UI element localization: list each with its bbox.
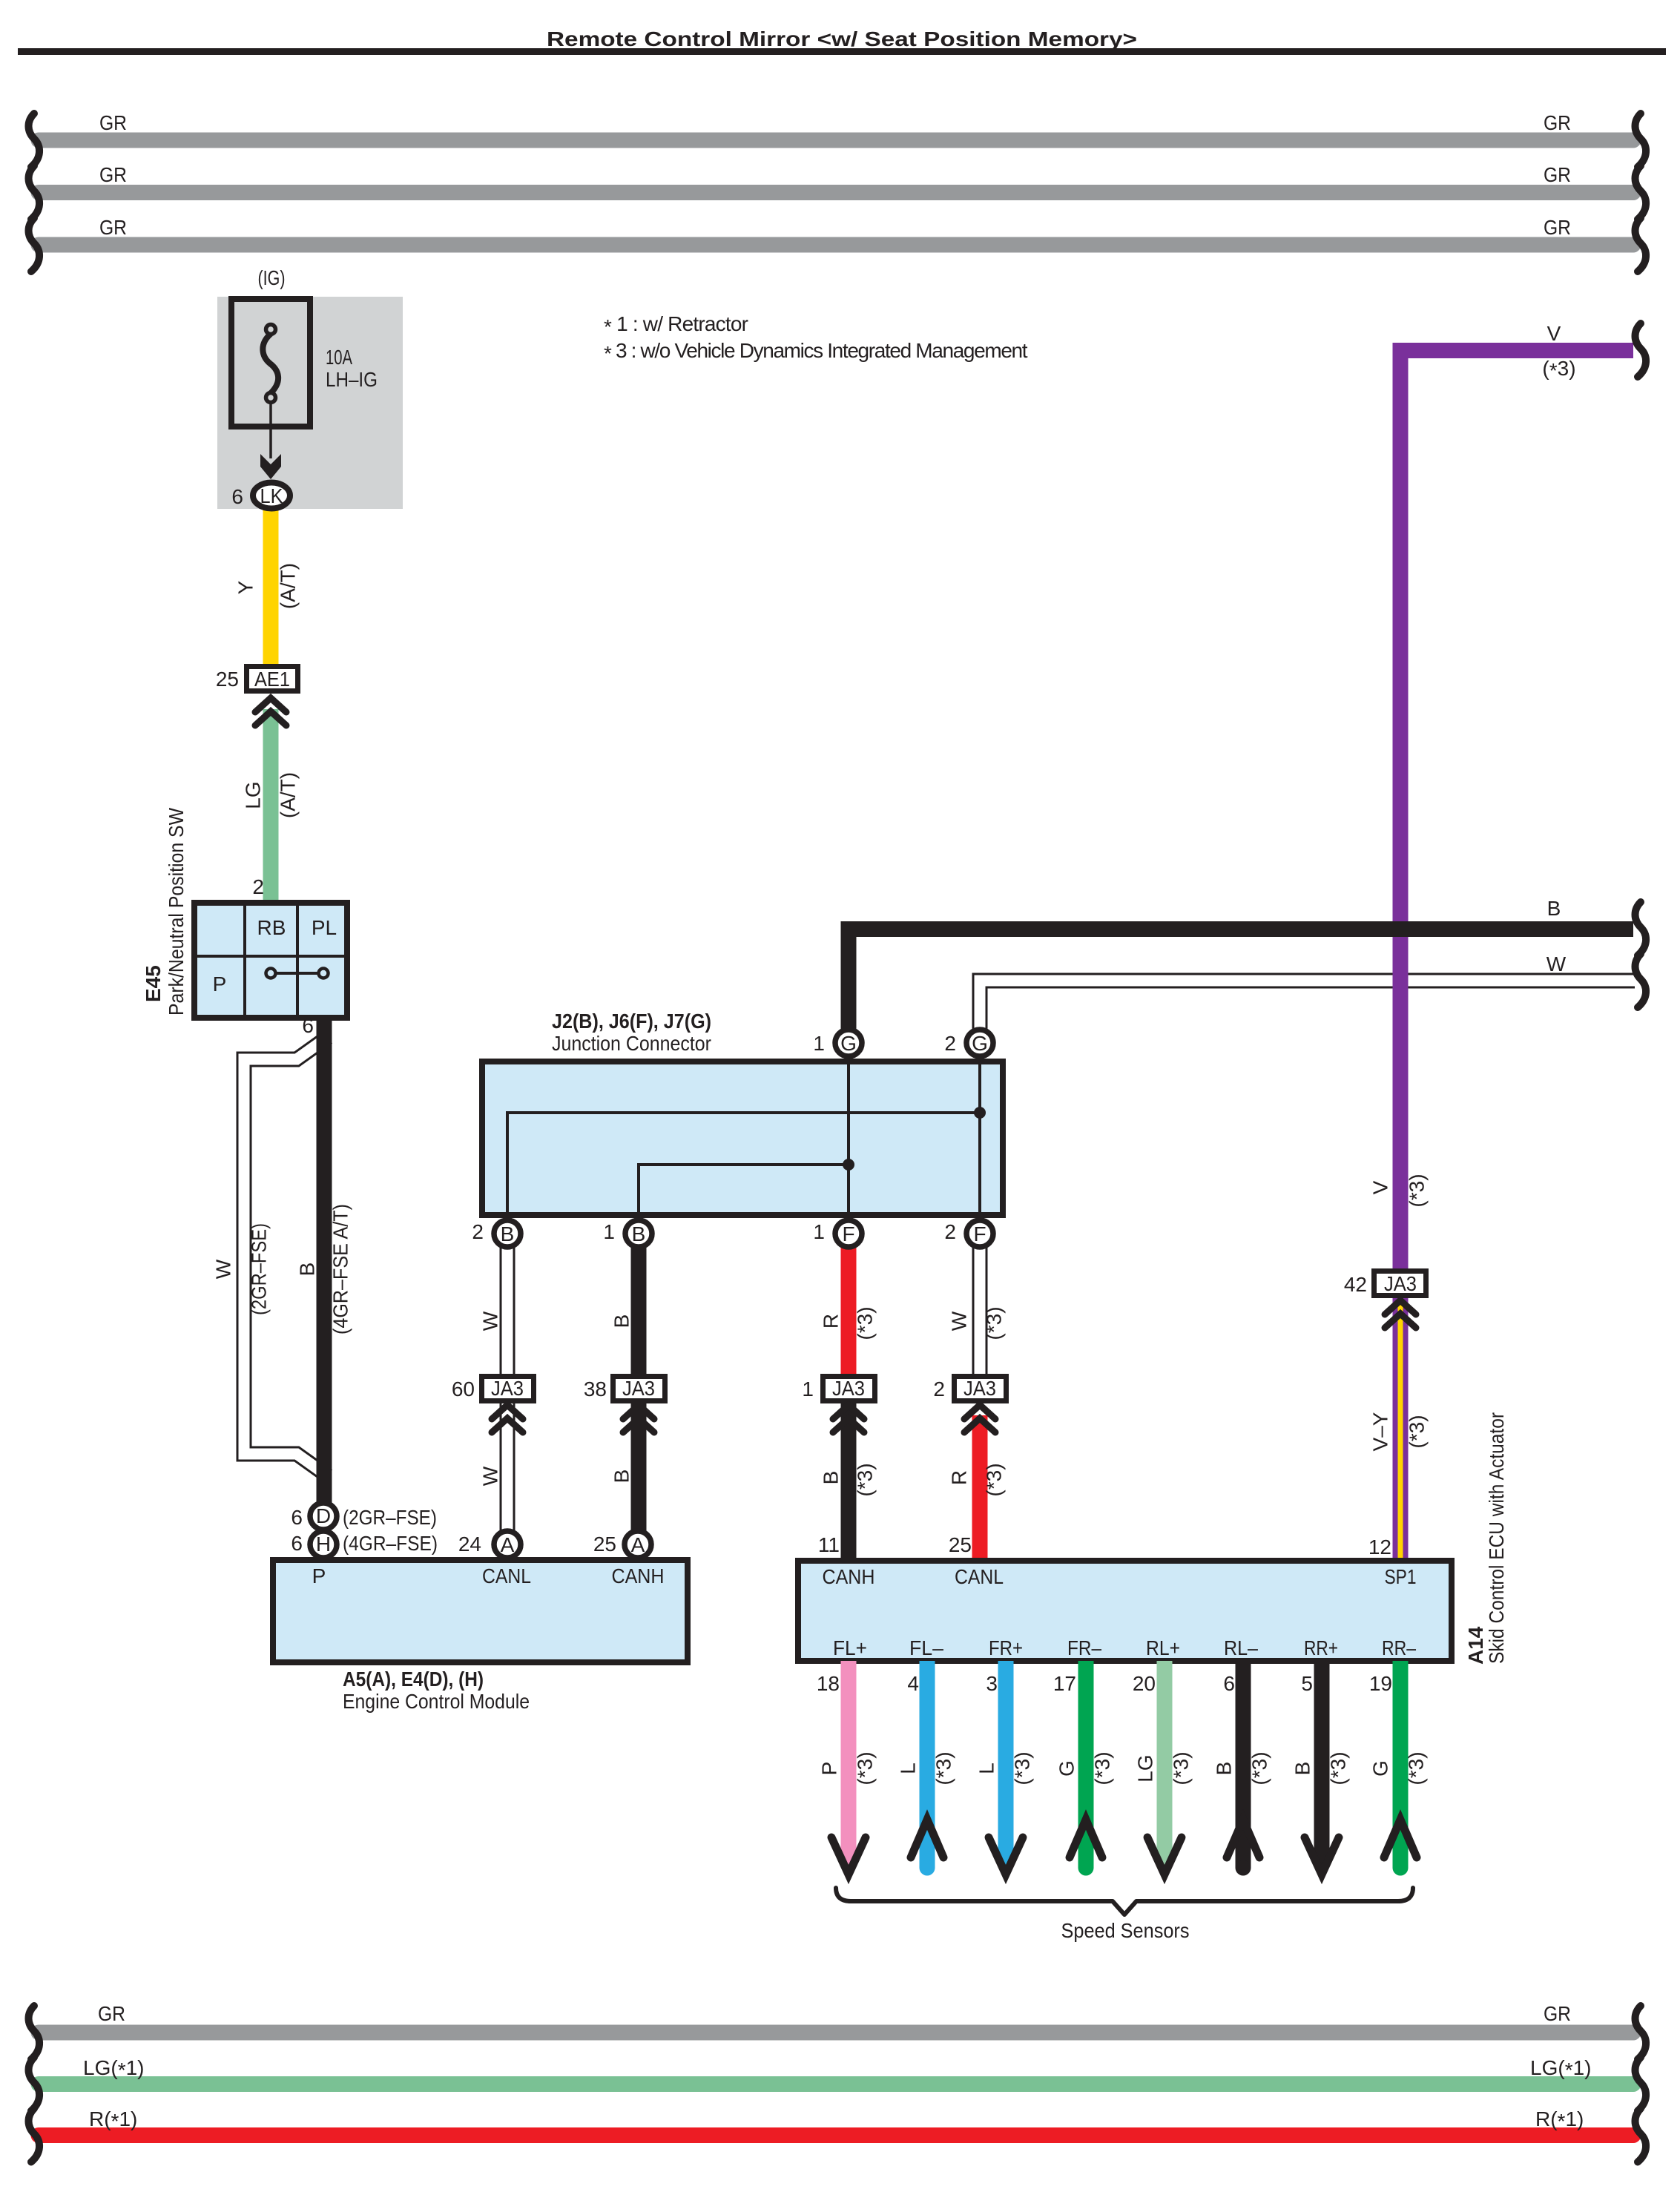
svg-text:38: 38 — [584, 1378, 607, 1401]
svg-text:42: 42 — [1344, 1273, 1367, 1296]
svg-text:B: B — [501, 1222, 515, 1245]
svg-text:W: W — [479, 1311, 502, 1331]
svg-text:5: 5 — [1301, 1672, 1313, 1695]
wire R (*3) JA3-2 to skid pin 25 — [948, 1415, 1006, 1561]
svg-text:3: 3 — [986, 1672, 998, 1695]
connector JA3 pin 60 — [452, 1377, 534, 1401]
svg-text:(*3): (*3) — [983, 1463, 1006, 1496]
break symbol top-left 2 — [29, 166, 40, 220]
svg-text:L: L — [975, 1763, 998, 1774]
svg-text:(4GR–FSE A/T): (4GR–FSE A/T) — [329, 1204, 352, 1334]
svg-text:LK: LK — [260, 484, 283, 507]
svg-text:L: L — [897, 1763, 920, 1774]
svg-text:B: B — [1213, 1762, 1236, 1776]
svg-text:6: 6 — [1223, 1672, 1235, 1695]
svg-text:17: 17 — [1053, 1672, 1076, 1695]
break symbol top-left 1 — [29, 113, 40, 167]
svg-text:R(*1): R(*1) — [89, 2107, 137, 2133]
svg-text:2: 2 — [944, 1220, 956, 1243]
arrow down pin 5 — [1305, 1837, 1339, 1875]
svg-text:D: D — [316, 1504, 331, 1527]
svg-text:PL: PL — [312, 916, 337, 939]
connector JA3 pin 38 — [584, 1377, 665, 1401]
svg-text:GR: GR — [1544, 216, 1571, 239]
svg-text:B: B — [1291, 1762, 1314, 1776]
svg-text:6: 6 — [291, 1506, 303, 1529]
svg-text:(*3): (*3) — [1091, 1751, 1114, 1785]
svg-text:1: 1 — [813, 1032, 825, 1055]
svg-text:FR+: FR+ — [989, 1636, 1023, 1659]
svg-text:(*3): (*3) — [1405, 1751, 1428, 1785]
connector LK pin 6 — [231, 483, 290, 509]
svg-text:(A/T): (A/T) — [277, 563, 300, 609]
node F pin 1 — [813, 1220, 862, 1247]
connector JA3 pin 1 — [802, 1377, 874, 1401]
node A pin 24 — [458, 1531, 521, 1558]
svg-text:B: B — [1547, 897, 1561, 920]
svg-text:(*3): (*3) — [854, 1306, 877, 1340]
arrow up pin 6 — [1227, 1820, 1259, 1857]
wire W JA3-60 to ECM pin 24 — [479, 1401, 508, 1536]
svg-text:W: W — [948, 1311, 971, 1331]
svg-text:25: 25 — [216, 668, 239, 691]
wire B from 1B to JA3-38 — [610, 1239, 639, 1378]
svg-text:JA3: JA3 — [963, 1377, 996, 1400]
svg-text:LG(*1): LG(*1) — [83, 2056, 145, 2081]
break symbol top-right 1 — [1635, 113, 1647, 167]
svg-text:(*3): (*3) — [1406, 1174, 1429, 1207]
svg-text:1: 1 — [603, 1220, 615, 1243]
svg-text:P: P — [213, 972, 227, 995]
svg-text:Y: Y — [234, 580, 257, 594]
svg-text:JA3: JA3 — [832, 1377, 865, 1400]
wire W (*3) from 2F to JA3-2 — [948, 1239, 1006, 1378]
svg-text:24: 24 — [458, 1533, 481, 1556]
svg-text:JA3: JA3 — [622, 1377, 655, 1400]
break symbol right B — [1635, 902, 1647, 955]
node B pin 2 — [472, 1220, 521, 1247]
break symbol bottom-right R — [1635, 2109, 1647, 2162]
break symbol top-left 3 — [29, 218, 40, 271]
node H (4GR-FSE) pin 6 — [291, 1531, 438, 1558]
svg-text:Speed Sensors: Speed Sensors — [1061, 1919, 1190, 1942]
wire Y (A/T) yellow — [234, 496, 300, 666]
svg-text:FR–: FR– — [1067, 1636, 1101, 1659]
svg-text:(2GR–FSE): (2GR–FSE) — [343, 1506, 437, 1529]
svg-text:18: 18 — [817, 1672, 840, 1695]
svg-text:F: F — [973, 1222, 986, 1245]
wire GR top 2 — [39, 163, 1633, 193]
node A pin 25 — [593, 1531, 651, 1558]
svg-text:A: A — [631, 1533, 645, 1556]
svg-text:RB: RB — [257, 916, 286, 939]
wire W white to right edge from 2G — [980, 952, 1635, 1036]
svg-text:(*3): (*3) — [854, 1751, 877, 1785]
svg-text:(4GR–FSE): (4GR–FSE) — [343, 1532, 438, 1555]
svg-text:2: 2 — [944, 1032, 956, 1055]
arrow down pin 18 — [831, 1837, 866, 1875]
arrow up pin 4 — [911, 1820, 943, 1857]
svg-text:Skid Control ECU with Actuator: Skid Control ECU with Actuator — [1485, 1412, 1508, 1664]
wire B (*3) sensor pin 6 — [1213, 1661, 1271, 1876]
svg-text:11: 11 — [818, 1533, 840, 1556]
svg-text:V–Y: V–Y — [1369, 1412, 1392, 1451]
svg-text:CANL: CANL — [482, 1564, 531, 1587]
wire B JA3-38 to ECM pin 25 — [610, 1401, 639, 1536]
svg-text:A14: A14 — [1464, 1626, 1487, 1665]
svg-text:LG: LG — [1134, 1754, 1157, 1782]
ECU A14 Skid Control ECU with Actuator — [798, 1412, 1508, 1665]
svg-text:R: R — [948, 1470, 971, 1485]
svg-text:* 1 : w/ Retractor: * 1 : w/ Retractor — [604, 312, 748, 338]
title: Remote Control Mirror — [18, 27, 1666, 55]
break symbol right W — [1635, 954, 1647, 1007]
svg-text:F: F — [842, 1222, 854, 1245]
connector AE1 pin 25 — [216, 667, 298, 691]
arrow up pin 19 — [1384, 1820, 1417, 1857]
fuse block gray background — [217, 297, 403, 509]
break symbol top-right 2 — [1635, 166, 1647, 220]
svg-text:RR+: RR+ — [1304, 1636, 1338, 1659]
svg-text:(*3): (*3) — [983, 1306, 1006, 1340]
node B pin 1 — [603, 1220, 652, 1247]
break symbol bottom-left GR — [29, 2006, 40, 2059]
svg-text:25: 25 — [593, 1533, 616, 1556]
svg-text:(*3): (*3) — [1327, 1751, 1350, 1785]
break symbol right V — [1635, 323, 1647, 377]
svg-text:1: 1 — [813, 1220, 825, 1243]
svg-text:G: G — [1369, 1760, 1392, 1777]
svg-text:(*3): (*3) — [854, 1463, 877, 1496]
svg-text:2: 2 — [472, 1220, 484, 1243]
svg-text:(*3): (*3) — [932, 1751, 955, 1785]
svg-text:(*3): (*3) — [1406, 1415, 1429, 1448]
wire R (*1) bottom — [39, 2107, 1633, 2136]
svg-text:LH–IG: LH–IG — [326, 368, 378, 391]
svg-text:(*3): (*3) — [1542, 357, 1575, 382]
break symbol bottom-left LG — [29, 2058, 40, 2111]
svg-text:P: P — [312, 1564, 326, 1587]
wire W from 2B to JA3-60 — [479, 1239, 508, 1378]
svg-text:J2(B), J6(F), J7(G): J2(B), J6(F), J7(G) — [552, 1010, 711, 1033]
svg-text:B: B — [820, 1471, 843, 1485]
svg-text:SP1: SP1 — [1385, 1565, 1417, 1588]
svg-text:JA3: JA3 — [491, 1377, 524, 1400]
svg-text:GR: GR — [98, 2002, 125, 2025]
svg-text:25: 25 — [949, 1533, 972, 1556]
wire LG (*1) bottom — [39, 2056, 1633, 2084]
wire L (*3) sensor pin 3 — [975, 1661, 1034, 1865]
wire B (*3) JA3-1 to skid pin 11 — [818, 1401, 877, 1561]
chevron below JA3-2 — [964, 1405, 995, 1432]
wire B (*3) sensor pin 5 — [1291, 1661, 1350, 1865]
svg-text:GR: GR — [99, 216, 127, 239]
node G pin 2 — [944, 1030, 993, 1056]
wire B (4GR-FSE A/T) black E45 to D/H — [296, 1014, 352, 1510]
svg-text:RL+: RL+ — [1146, 1636, 1180, 1659]
svg-text:R: R — [820, 1314, 843, 1329]
wire G (*3) sensor pin 17 — [1053, 1661, 1114, 1876]
svg-text:B: B — [610, 1469, 633, 1484]
svg-text:10A: 10A — [326, 346, 352, 369]
svg-text:A: A — [501, 1533, 515, 1556]
switch E45 Park/Neutral Position SW — [142, 807, 347, 1018]
svg-text:W: W — [479, 1466, 502, 1486]
svg-text:H: H — [316, 1533, 331, 1556]
svg-text:RL–: RL– — [1224, 1636, 1258, 1659]
break symbol bottom-left R — [29, 2109, 40, 2162]
node D (2GR-FSE) pin 6 — [291, 1503, 437, 1530]
wire L (*3) sensor pin 4 — [897, 1661, 955, 1876]
svg-text:60: 60 — [452, 1378, 475, 1401]
svg-text:Park/Neutral Position SW: Park/Neutral Position SW — [165, 807, 188, 1016]
svg-text:G: G — [972, 1032, 988, 1055]
svg-text:B: B — [296, 1263, 319, 1277]
chevron below JA3-38 — [623, 1405, 654, 1432]
svg-text:* 3 : w/o Vehicle Dynamics Int: * 3 : w/o Vehicle Dynamics Integrated Ma… — [604, 339, 1028, 365]
svg-text:Engine Control Module: Engine Control Module — [343, 1690, 530, 1713]
svg-text:(2GR–FSE): (2GR–FSE) — [248, 1223, 271, 1315]
svg-text:W: W — [212, 1259, 235, 1279]
svg-text:Remote Control Mirror <w/ Seat: Remote Control Mirror <w/ Seat Position … — [547, 27, 1137, 50]
wire V purple vertical+horizontal — [1369, 322, 1634, 1273]
ECU A5(A), E4(D), (H) Engine Control Module — [273, 1560, 688, 1713]
connector JA3 pin 42 — [1344, 1271, 1426, 1297]
svg-text:G: G — [1055, 1760, 1078, 1777]
wire GR top 3 — [39, 216, 1633, 245]
chevron below JA3-42 — [1385, 1300, 1416, 1328]
svg-text:19: 19 — [1369, 1672, 1392, 1695]
svg-text:FL–: FL– — [909, 1636, 943, 1659]
svg-text:GR: GR — [99, 111, 127, 134]
svg-text:V: V — [1547, 322, 1561, 345]
svg-text:4: 4 — [907, 1672, 919, 1695]
wire LG (A/T) green — [242, 709, 300, 905]
chevron below JA3-60 — [492, 1405, 523, 1432]
svg-text:1: 1 — [802, 1378, 814, 1401]
wire W (2GR-FSE) hollow detour — [212, 1037, 329, 1476]
svg-text:W: W — [1546, 952, 1567, 975]
svg-text:2: 2 — [252, 875, 264, 898]
svg-text:(A/T): (A/T) — [277, 772, 300, 818]
svg-text:JA3: JA3 — [1384, 1272, 1417, 1295]
svg-text:R(*1): R(*1) — [1535, 2107, 1584, 2133]
svg-text:6: 6 — [291, 1532, 303, 1555]
node F pin 2 — [944, 1220, 993, 1247]
svg-text:LG: LG — [242, 781, 265, 809]
wire B black to right edge from 1G — [849, 897, 1633, 1035]
svg-text:FL+: FL+ — [833, 1636, 867, 1659]
wire LG (*3) sensor pin 20 — [1133, 1661, 1193, 1865]
svg-text:G: G — [840, 1032, 857, 1055]
svg-text:GR: GR — [99, 163, 127, 186]
svg-text:2: 2 — [933, 1378, 945, 1401]
svg-text:B: B — [632, 1222, 646, 1245]
svg-text:GR: GR — [1544, 2002, 1571, 2025]
svg-text:6: 6 — [302, 1014, 314, 1037]
svg-text:Junction Connector: Junction Connector — [552, 1032, 711, 1055]
arrow up pin 17 — [1070, 1820, 1102, 1857]
svg-text:CANH: CANH — [823, 1565, 875, 1588]
wire V-Y (*3) JA3-42 to skid pin 12 — [1368, 1298, 1429, 1561]
svg-text:(*3): (*3) — [1248, 1751, 1271, 1785]
break symbol bottom-right GR — [1635, 2006, 1647, 2059]
wire P (*3) sensor pin 18 — [817, 1661, 877, 1865]
svg-text:P: P — [818, 1762, 841, 1776]
svg-text:20: 20 — [1133, 1672, 1156, 1695]
svg-text:(*3): (*3) — [1011, 1751, 1034, 1785]
svg-text:LG(*1): LG(*1) — [1530, 2056, 1592, 2081]
svg-text:AE1: AE1 — [254, 668, 290, 691]
chevron below AE1 — [255, 698, 286, 725]
svg-text:(*3): (*3) — [1170, 1751, 1193, 1785]
svg-text:E45: E45 — [142, 965, 165, 1002]
wire G (*3) sensor pin 19 — [1369, 1661, 1428, 1876]
wire GR bottom — [39, 2002, 1633, 2033]
svg-text:A5(A), E4(D), (H): A5(A), E4(D), (H) — [343, 1668, 484, 1691]
connector JA3 pin 2 — [933, 1377, 1006, 1401]
arrow down pin 20 — [1147, 1837, 1182, 1875]
svg-text:6: 6 — [231, 485, 243, 508]
svg-text:V: V — [1369, 1180, 1392, 1194]
svg-text:RR–: RR– — [1382, 1636, 1416, 1659]
arrow down pin 3 — [989, 1837, 1023, 1875]
svg-text:12: 12 — [1368, 1536, 1391, 1559]
svg-text:B: B — [610, 1314, 633, 1329]
chevron below JA3-1 — [833, 1405, 864, 1432]
svg-text:GR: GR — [1544, 111, 1571, 134]
fuse F1 10A LH-IG — [231, 299, 378, 427]
svg-text:CANL: CANL — [955, 1565, 1004, 1588]
wire R (*3) from 1F to JA3-1 — [820, 1239, 877, 1378]
svg-text:CANH: CANH — [612, 1564, 665, 1587]
node G pin 1 — [813, 1030, 862, 1056]
svg-text:GR: GR — [1544, 163, 1571, 186]
svg-text:(IG): (IG) — [258, 266, 286, 289]
brace Speed Sensors — [836, 1888, 1413, 1942]
junction connector J2(B), J6(F), J7(G) — [482, 1010, 1003, 1215]
wire fuse to LK arrow — [260, 402, 281, 479]
break symbol bottom-right LG — [1635, 2058, 1647, 2111]
wire GR top 1 — [39, 111, 1633, 140]
break symbol top-right 3 — [1635, 218, 1647, 271]
